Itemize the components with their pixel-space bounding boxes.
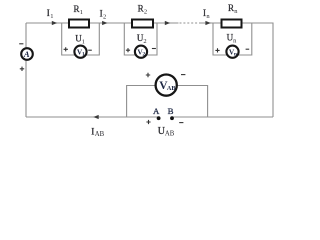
svg-text:1: 1	[50, 13, 53, 20]
svg-text:2: 2	[103, 13, 106, 20]
wire voltmeter VAB bracket	[127, 86, 208, 118]
svg-text:2: 2	[144, 9, 147, 16]
arrow IAB current (points left)	[93, 115, 98, 119]
wire bottom bus left segment to terminal A	[26, 116, 159, 118]
svg-text:n: n	[233, 37, 237, 44]
voltmeter Vn	[226, 46, 238, 58]
svg-text:R: R	[74, 4, 80, 14]
voltmeter V2	[135, 46, 147, 58]
svg-text:A: A	[153, 106, 160, 116]
svg-text:1: 1	[82, 38, 85, 45]
arrow current after R2	[165, 21, 170, 25]
polarity minus Vn	[246, 48, 250, 50]
resistor Rn	[222, 20, 242, 28]
polarity minus V2	[152, 48, 156, 50]
resistor R1	[69, 20, 89, 28]
svg-text:R: R	[228, 3, 234, 13]
svg-text:1: 1	[80, 9, 83, 16]
wire right branch	[272, 23, 274, 118]
svg-text:2: 2	[143, 38, 146, 45]
wire voltmeter V2 bracket	[124, 23, 157, 55]
svg-text:A: A	[23, 49, 30, 59]
polarity plus V1	[64, 47, 68, 51]
wire top bus solid left part	[26, 22, 179, 24]
node B terminal dot	[170, 116, 174, 120]
svg-text:R: R	[138, 4, 144, 14]
wire top bus dashed section	[180, 22, 200, 24]
svg-text:AB: AB	[95, 131, 105, 138]
wire left branch	[25, 23, 27, 117]
svg-text:n: n	[206, 13, 210, 20]
polarity minus terminal B	[179, 122, 183, 124]
arrow In current	[205, 21, 210, 25]
wire bottom bus right segment from terminal B	[172, 116, 273, 118]
polarity minus VAB	[181, 74, 185, 76]
svg-text:AB: AB	[167, 85, 176, 92]
voltmeter V1	[74, 46, 86, 58]
node A terminal dot	[157, 116, 161, 120]
voltmeter VAB	[156, 75, 177, 96]
polarity minus ammeter	[19, 43, 23, 45]
polarity plus VAB	[146, 73, 150, 77]
polarity minus V1	[88, 49, 92, 51]
polarity plus V2	[126, 48, 130, 52]
arrow I1 current	[52, 21, 57, 25]
svg-text:B: B	[168, 106, 174, 116]
polarity plus ammeter	[20, 67, 24, 71]
wire top bus solid right part	[199, 22, 273, 24]
resistor R2	[132, 20, 153, 28]
ammeter A	[21, 48, 33, 60]
wire voltmeter V1 bracket	[62, 23, 100, 55]
polarity plus terminal A	[146, 120, 150, 124]
wire voltmeter Vn bracket	[213, 23, 252, 55]
svg-text:2: 2	[142, 52, 145, 58]
polarity plus Vn	[215, 48, 219, 52]
svg-text:AB: AB	[165, 131, 175, 138]
svg-text:1: 1	[82, 52, 85, 58]
svg-text:n: n	[234, 8, 238, 15]
arrow I2 current	[102, 21, 107, 25]
